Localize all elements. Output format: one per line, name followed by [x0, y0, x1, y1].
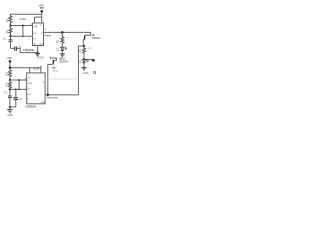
svg-text:DIS: DIS [28, 94, 32, 96]
LED D2 [56, 47, 67, 54]
svg-text:DIS: DIS [33, 33, 37, 35]
svg-text:C1: C1 [3, 37, 7, 41]
ground under D1 [82, 67, 89, 74]
faint ground under Q1 [51, 64, 58, 73]
svg-text:+9V: +9V [39, 3, 46, 7]
svg-text:TR: TR [33, 38, 36, 40]
resistor R1 [5, 14, 12, 25]
open pad ring [94, 71, 96, 73]
wire left rail down [47, 64, 49, 95]
capacitor C4 electrolytic [14, 89, 23, 108]
capacitor C2 [14, 45, 37, 53]
wire tie pins 2-6 [22, 26, 24, 37]
wire bottom rail to IC1B top [10, 67, 41, 69]
svg-text:2N3904: 2N3904 [59, 60, 68, 63]
svg-text:R4: R4 [4, 83, 8, 87]
node junction Q2 emitter [83, 45, 85, 47]
wire top rail [10, 13, 41, 15]
ground under IC1A [35, 46, 44, 60]
power +9V terminal bottom [7, 56, 12, 70]
transistor Q2 [83, 32, 101, 46]
svg-text:LM556N: LM556N [25, 105, 36, 109]
svg-text:GND: GND [7, 114, 13, 117]
wire to IC1B pin [10, 79, 27, 81]
resistor R6 [79, 46, 92, 59]
svg-text:R1: R1 [5, 18, 9, 22]
node junction flash/R5 [61, 31, 64, 34]
resistor R3 [4, 70, 11, 80]
svg-text:TR: TR [28, 78, 31, 80]
wire stub pin4 [34, 17, 36, 23]
wire stub pin8 [41, 17, 43, 23]
svg-text:D2: D2 [56, 47, 60, 51]
ground under D2 [60, 54, 66, 61]
LED D1 [79, 59, 88, 67]
svg-text:THR: THR [28, 83, 33, 85]
wire to IC1B pin [10, 88, 27, 90]
node junction ground bottom [9, 106, 11, 108]
wire bottom rung (Alternate) [45, 94, 78, 96]
svg-text:R3: R3 [4, 72, 8, 76]
wire to pin 2 [11, 35, 33, 37]
ground bottom left [7, 107, 13, 117]
wire C4 to ground [10, 106, 16, 108]
node junction LED1 top [83, 58, 85, 60]
wire IC1B output stub faint [45, 80, 48, 82]
capacitor C1 [3, 36, 13, 48]
transistor Q1 [50, 57, 68, 65]
svg-text:LM556N: LM556N [23, 48, 34, 52]
wire Q1 emitter to left rail [48, 63, 52, 65]
svg-text:GND: GND [40, 102, 45, 104]
wire to pin 6 [11, 25, 33, 27]
node junction R3/R4 [9, 79, 11, 81]
wire to pad [84, 59, 92, 61]
IC1B box (556 half B) [27, 73, 45, 104]
svg-text:Alternate: Alternate [47, 96, 59, 100]
svg-text:GND: GND [83, 72, 89, 75]
svg-text:C4: C4 [19, 97, 23, 101]
svg-text:+9V: +9V [7, 56, 12, 60]
node junction R4/C3 [9, 88, 11, 90]
wire stub [29, 68, 31, 73]
svg-text:R2: R2 [5, 29, 9, 33]
resistor R5 [56, 32, 64, 47]
node junction R2/C1 [9, 35, 11, 37]
node junction R1/R2 [9, 24, 11, 26]
svg-text:THR: THR [33, 26, 38, 28]
svg-text:2N3904: 2N3904 [92, 37, 101, 40]
capacitor C3 [4, 89, 12, 107]
svg-text:Flash: Flash [44, 33, 51, 37]
power +9V terminal top [39, 3, 46, 17]
wire rail corner to C2 [11, 47, 14, 49]
svg-text:GND: GND [39, 44, 44, 46]
wire right rail down [77, 46, 79, 95]
svg-text:GND: GND [38, 57, 44, 60]
wire IC1A output (Flash) [44, 31, 91, 33]
IC1A box (556 half A) [33, 23, 44, 46]
resistor R4 [4, 80, 11, 89]
resistor R2 [5, 26, 12, 37]
wire tie bar [35, 16, 42, 18]
faint top rung [48, 78, 79, 80]
svg-text:GND: GND [53, 70, 59, 73]
svg-text:C3: C3 [4, 91, 8, 95]
svg-text:R5: R5 [56, 39, 60, 43]
pad dot [92, 59, 95, 62]
svg-text:IC1A: IC1A [20, 17, 27, 21]
svg-text:IC1B: IC1B [33, 67, 39, 71]
wire emitter to left [78, 45, 84, 47]
wire stub [40, 66, 42, 73]
wire tie pins 2-6 (B) [18, 80, 20, 89]
